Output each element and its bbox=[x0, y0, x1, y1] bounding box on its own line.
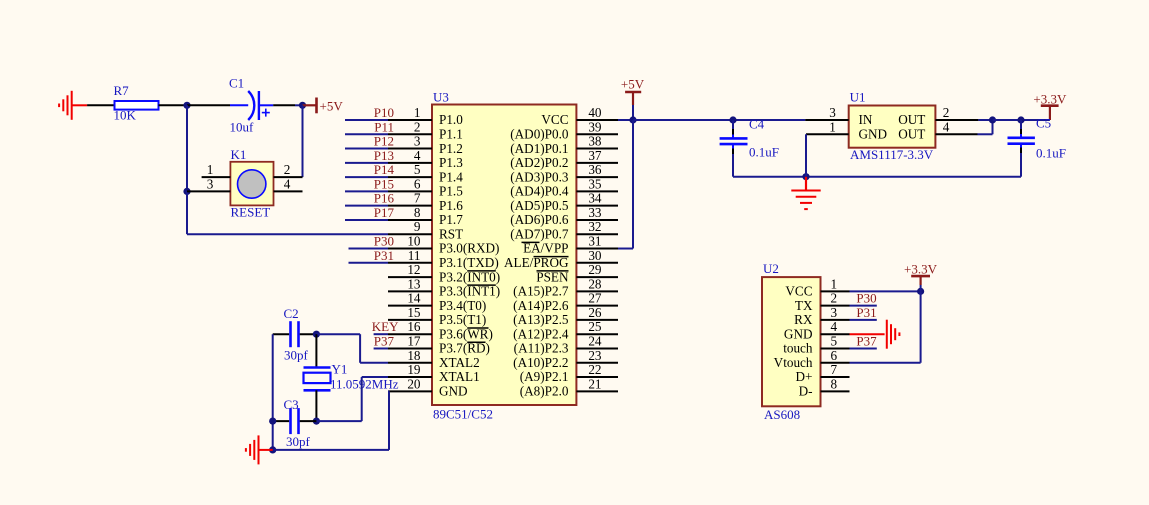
svg-text:P14: P14 bbox=[374, 162, 395, 177]
power flag +5V (VCC) bbox=[621, 77, 645, 120]
svg-text:(AD1)P0.1: (AD1)P0.1 bbox=[510, 141, 568, 156]
U3 pin 12 (P3.2(INT0)) bbox=[388, 262, 500, 284]
capacitor C2 30pf bbox=[273, 306, 317, 363]
U3 pin 13 (P3.3(INT1)) bbox=[388, 276, 500, 298]
svg-text:+3.3V: +3.3V bbox=[1033, 92, 1067, 107]
svg-text:+5V: +5V bbox=[621, 77, 645, 92]
svg-text:P30: P30 bbox=[856, 291, 876, 306]
svg-text:+3.3V: +3.3V bbox=[904, 261, 938, 276]
K1 pin 3 bbox=[187, 190, 230, 192]
svg-text:8: 8 bbox=[414, 205, 421, 220]
svg-text:GND: GND bbox=[859, 126, 888, 141]
wire R7 to node RSTNET bbox=[159, 104, 188, 106]
junction at C1/+5V node bbox=[299, 102, 306, 109]
junction at R7/C1 node bbox=[183, 102, 190, 109]
svg-text:8: 8 bbox=[831, 376, 838, 391]
U1 pin 1 (GND) bbox=[806, 133, 849, 135]
svg-text:+5V: +5V bbox=[320, 98, 344, 113]
wire ground to R7 bbox=[87, 104, 114, 106]
U3 pin 33 ((AD6)P0.6) bbox=[510, 205, 618, 227]
U2 pin 4 (GND) bbox=[784, 319, 850, 341]
wire net P13 bbox=[345, 162, 388, 164]
svg-text:(AD5)P0.5: (AD5)P0.5 bbox=[510, 198, 569, 213]
svg-text:0.1uF: 0.1uF bbox=[749, 145, 779, 160]
U3 pin 6 (P1.5) bbox=[388, 176, 463, 198]
svg-text:29: 29 bbox=[588, 262, 602, 277]
svg-text:21: 21 bbox=[588, 376, 601, 391]
U1 pin 2 (OUT) bbox=[935, 119, 978, 121]
svg-text:11.0592MHz: 11.0592MHz bbox=[330, 377, 399, 392]
junction node B (XTAL1 net) bbox=[313, 418, 320, 425]
svg-text:P37: P37 bbox=[856, 333, 877, 348]
wire net P30 (U2 TX) bbox=[850, 305, 877, 307]
svg-text:1: 1 bbox=[207, 162, 214, 177]
svg-text:11: 11 bbox=[408, 248, 421, 263]
wire node down to K1 pin3 and RST bbox=[186, 105, 188, 191]
svg-text:25: 25 bbox=[588, 319, 602, 334]
svg-text:4: 4 bbox=[284, 176, 291, 191]
svg-text:(A10)P2.2: (A10)P2.2 bbox=[513, 355, 568, 370]
svg-text:23: 23 bbox=[588, 348, 602, 363]
U3 pin 7 (P1.6) bbox=[388, 191, 463, 213]
wire net P37 (U2 touch) bbox=[850, 347, 877, 349]
junction at C4 bbox=[729, 116, 736, 123]
svg-text:P37: P37 bbox=[374, 333, 395, 348]
svg-text:U3: U3 bbox=[433, 90, 449, 105]
regulator U1 AMS1117-3.3V bbox=[849, 90, 936, 162]
svg-text:30pf: 30pf bbox=[284, 348, 309, 363]
svg-text:touch: touch bbox=[783, 341, 813, 356]
junction OUT node bbox=[989, 116, 996, 123]
svg-text:P17: P17 bbox=[374, 205, 395, 220]
U3 pin 1 (P1.0) bbox=[388, 105, 463, 127]
U3 pin 19 (XTAL1) bbox=[388, 362, 480, 384]
svg-text:18: 18 bbox=[407, 348, 421, 363]
U3 pin 37 ((AD2)P0.2) bbox=[510, 148, 618, 170]
wire net P10 bbox=[345, 119, 388, 121]
U3 pin 15 (P3.5(T1)) bbox=[388, 305, 486, 327]
svg-text:3: 3 bbox=[207, 176, 214, 191]
svg-text:19: 19 bbox=[407, 362, 421, 377]
svg-text:36: 36 bbox=[588, 162, 602, 177]
U3 pin 10 (P3.0(RXD)) bbox=[388, 234, 499, 256]
svg-text:35: 35 bbox=[588, 176, 602, 191]
svg-text:P1.6: P1.6 bbox=[439, 198, 463, 213]
wire U1 GND down to ground node bbox=[805, 134, 807, 176]
wire net P14 bbox=[345, 176, 388, 178]
U3 pin 34 ((AD5)P0.5) bbox=[510, 191, 618, 213]
svg-text:(AD4)P0.4: (AD4)P0.4 bbox=[510, 184, 569, 199]
wire net P37 bbox=[374, 347, 388, 349]
junction C3 left bbox=[269, 418, 276, 425]
capacitor C5 0.1uF bbox=[1008, 116, 1066, 177]
U3 pin 22 ((A9)P2.1) bbox=[520, 362, 618, 384]
U3 pin 31 (EA/VPP) bbox=[523, 234, 618, 256]
wire net P16 bbox=[345, 205, 388, 207]
wire net P31 bbox=[349, 262, 389, 264]
U3 pin 32 ((AD7)P0.7) bbox=[510, 219, 618, 241]
svg-text:P3.5(T1): P3.5(T1) bbox=[439, 312, 486, 327]
U3 pin 24 ((A11)P2.3) bbox=[514, 333, 618, 355]
wire net P11 bbox=[345, 133, 388, 135]
svg-text:D-: D- bbox=[799, 384, 813, 399]
wire GND pin20 down to ground row bbox=[388, 391, 390, 450]
svg-text:30pf: 30pf bbox=[286, 434, 311, 449]
U3 pin 8 (P1.7) bbox=[388, 205, 463, 227]
junction ground row left bbox=[269, 446, 276, 453]
svg-text:KEY: KEY bbox=[372, 319, 399, 334]
svg-text:3: 3 bbox=[414, 134, 421, 149]
svg-text:P3.0(RXD): P3.0(RXD) bbox=[439, 241, 499, 256]
svg-text:(AD7)P0.7: (AD7)P0.7 bbox=[510, 226, 569, 241]
MCU U3 89C51/C52 bbox=[432, 90, 576, 422]
U3 pin 29 (PSEN) bbox=[536, 262, 618, 284]
svg-text:(A14)P2.6: (A14)P2.6 bbox=[513, 298, 569, 313]
svg-text:89C51/C52: 89C51/C52 bbox=[433, 407, 493, 422]
U3 pin 35 ((AD4)P0.4) bbox=[510, 176, 618, 198]
svg-text:TX: TX bbox=[795, 298, 813, 313]
wire OUT node to C5/+3.3V bbox=[993, 119, 1050, 121]
crystal Y1 11.0592MHz bbox=[304, 334, 399, 421]
svg-text:10K: 10K bbox=[114, 108, 137, 123]
U2 pin 8 (D-) bbox=[799, 376, 850, 398]
U1 pin 3 (IN) bbox=[805, 119, 849, 121]
U2 pin 5 (touch) bbox=[783, 333, 849, 355]
svg-text:27: 27 bbox=[588, 291, 602, 306]
U3 active-low overlines (left) bbox=[467, 271, 496, 342]
power flag +3.3V (U2) bbox=[904, 261, 938, 291]
capacitor C1 10uf (polarized) bbox=[229, 76, 273, 135]
junction U2 VCC node bbox=[917, 288, 924, 295]
fingerprint module U2 AS608 bbox=[762, 261, 821, 422]
svg-text:Vtouch: Vtouch bbox=[774, 355, 813, 370]
wire node B to XTAL1 bbox=[316, 420, 361, 422]
wire +5V node down to EA/VPP pin31 bbox=[632, 120, 634, 249]
svg-text:Y1: Y1 bbox=[332, 362, 348, 377]
svg-text:7: 7 bbox=[414, 191, 421, 206]
svg-text:AS608: AS608 bbox=[764, 407, 800, 422]
U3 pin 20 (GND) bbox=[388, 376, 468, 398]
resistor R7 10K bbox=[114, 83, 159, 123]
svg-text:C3: C3 bbox=[284, 397, 299, 412]
svg-text:31: 31 bbox=[588, 234, 601, 249]
svg-text:P13: P13 bbox=[374, 148, 394, 163]
svg-text:RX: RX bbox=[794, 312, 813, 327]
svg-text:(AD0)P0.0: (AD0)P0.0 bbox=[510, 126, 569, 141]
svg-text:(A12)P2.4: (A12)P2.4 bbox=[513, 326, 569, 341]
svg-text:R7: R7 bbox=[114, 83, 130, 98]
wire VCC node to C4 and U1 bbox=[633, 119, 805, 121]
U3 pin 39 ((AD0)P0.0) bbox=[510, 119, 618, 141]
svg-text:5: 5 bbox=[414, 162, 421, 177]
wire OUT pins join bbox=[978, 119, 992, 121]
U2 pin 7 (D+) bbox=[796, 362, 850, 384]
svg-text:4: 4 bbox=[831, 319, 838, 334]
svg-text:6: 6 bbox=[414, 176, 421, 191]
svg-text:4: 4 bbox=[414, 148, 421, 163]
svg-text:GND: GND bbox=[439, 384, 468, 399]
K1 pin 4 bbox=[274, 190, 303, 192]
wire +5V node down to K1 pin2 bbox=[302, 105, 304, 177]
U3 pin 23 ((A10)P2.2) bbox=[513, 348, 618, 370]
svg-text:K1: K1 bbox=[231, 147, 247, 162]
wire C4 bottom to ground/C5 bbox=[733, 176, 1021, 178]
svg-text:0.1uF: 0.1uF bbox=[1036, 145, 1066, 160]
svg-text:OUT: OUT bbox=[898, 126, 925, 141]
svg-text:39: 39 bbox=[588, 119, 602, 134]
svg-text:14: 14 bbox=[407, 291, 421, 306]
junction at C5 bbox=[1017, 116, 1024, 123]
svg-text:12: 12 bbox=[407, 262, 420, 277]
svg-text:6: 6 bbox=[831, 348, 838, 363]
svg-text:2: 2 bbox=[831, 291, 838, 306]
svg-text:GND: GND bbox=[784, 326, 813, 341]
U3 pin 9 (RST) bbox=[388, 219, 463, 241]
svg-text:C2: C2 bbox=[284, 306, 299, 321]
U2 pin 6 (Vtouch) bbox=[774, 348, 850, 370]
ground GND3 (crystal) bbox=[246, 435, 273, 464]
U3 pin 16 (P3.6(WR)) bbox=[388, 319, 493, 341]
svg-text:22: 22 bbox=[588, 362, 601, 377]
svg-text:P11: P11 bbox=[374, 119, 394, 134]
svg-text:(AD2)P0.2: (AD2)P0.2 bbox=[510, 155, 568, 170]
svg-text:5: 5 bbox=[831, 333, 838, 348]
svg-text:(A13)P2.5: (A13)P2.5 bbox=[513, 312, 569, 327]
U3 pin 27 ((A14)P2.6) bbox=[513, 291, 618, 313]
svg-text:1: 1 bbox=[414, 105, 421, 120]
svg-text:10uf: 10uf bbox=[230, 120, 255, 135]
wire U2 VCC to +3.3V bbox=[850, 290, 921, 292]
U2 pin 3 (RX) bbox=[794, 305, 849, 327]
svg-text:28: 28 bbox=[588, 276, 602, 291]
svg-text:RESET: RESET bbox=[231, 205, 271, 220]
svg-text:P10: P10 bbox=[374, 105, 394, 120]
svg-text:16: 16 bbox=[407, 319, 421, 334]
junction node A (XTAL2 net) bbox=[313, 331, 320, 338]
wire U2 Vtouch to +3.3V node bbox=[850, 362, 921, 364]
wire net P15 bbox=[345, 190, 388, 192]
U3 pin 4 (P1.3) bbox=[388, 148, 463, 170]
svg-text:(A8)P2.0: (A8)P2.0 bbox=[520, 384, 569, 399]
ground GND2 (below C4/U1) bbox=[791, 177, 820, 209]
svg-text:2: 2 bbox=[414, 119, 421, 134]
U3 pin 14 (P3.4(T0)) bbox=[388, 291, 486, 313]
svg-text:2: 2 bbox=[284, 162, 291, 177]
wire net P31 (U2 RX) bbox=[850, 319, 877, 321]
svg-text:P1.2: P1.2 bbox=[439, 141, 463, 156]
wire net KEY bbox=[374, 333, 388, 335]
U2 pin 1 (VCC) bbox=[785, 276, 849, 298]
wire C2 left leg down to ground row bbox=[272, 334, 274, 450]
svg-text:AMS1117-3.3V: AMS1117-3.3V bbox=[850, 147, 934, 162]
svg-text:3: 3 bbox=[831, 305, 838, 320]
svg-text:VCC: VCC bbox=[541, 112, 568, 127]
U3 pin 30 (ALE/PROG) bbox=[504, 248, 618, 270]
svg-text:4: 4 bbox=[943, 119, 950, 134]
U2 pin 2 (TX) bbox=[795, 291, 850, 313]
svg-text:26: 26 bbox=[588, 305, 602, 320]
svg-text:(AD6)P0.6: (AD6)P0.6 bbox=[510, 212, 569, 227]
svg-text:13: 13 bbox=[407, 276, 421, 291]
power flag +5V (reset circuit) bbox=[303, 98, 344, 114]
svg-text:P12: P12 bbox=[374, 134, 394, 149]
svg-text:(A9)P2.1: (A9)P2.1 bbox=[520, 369, 569, 384]
svg-text:24: 24 bbox=[588, 333, 602, 348]
capacitor C4 0.1uF bbox=[720, 116, 779, 176]
U3 pin 2 (P1.1) bbox=[388, 119, 463, 141]
wire net P12 bbox=[345, 148, 388, 150]
svg-text:C4: C4 bbox=[749, 116, 765, 131]
svg-text:P3.4(T0): P3.4(T0) bbox=[439, 298, 486, 313]
svg-text:P30: P30 bbox=[374, 234, 394, 249]
U3 pin 17 (P3.7(RD)) bbox=[388, 333, 490, 355]
svg-text:15: 15 bbox=[407, 305, 421, 320]
svg-text:P15: P15 bbox=[374, 176, 394, 191]
U3 pin 36 ((AD3)P0.3) bbox=[510, 162, 618, 184]
K1 pin 1 bbox=[202, 176, 231, 178]
K1 pin 2 bbox=[274, 176, 303, 178]
svg-text:(A15)P2.7: (A15)P2.7 bbox=[513, 284, 569, 299]
wire node to C1 bbox=[187, 104, 230, 106]
svg-text:10: 10 bbox=[407, 234, 421, 249]
svg-text:D+: D+ bbox=[796, 369, 813, 384]
svg-text:40: 40 bbox=[588, 105, 602, 120]
U3 pin 21 ((A8)P2.0) bbox=[520, 376, 618, 398]
svg-text:C5: C5 bbox=[1036, 116, 1051, 131]
svg-text:P1.1: P1.1 bbox=[439, 126, 463, 141]
svg-text:XTAL2: XTAL2 bbox=[439, 355, 480, 370]
U3 pin 25 ((A12)P2.4) bbox=[513, 319, 618, 341]
U3 pin 28 ((A15)P2.7) bbox=[513, 276, 618, 298]
svg-text:P1.5: P1.5 bbox=[439, 184, 463, 199]
svg-text:33: 33 bbox=[588, 205, 602, 220]
U3 pin 5 (P1.4) bbox=[388, 162, 463, 184]
wire net P30 bbox=[349, 248, 389, 250]
wire C1 to +5V node bbox=[273, 104, 295, 106]
junction at ground node bbox=[802, 173, 809, 180]
wire node A to XTAL2 bbox=[316, 333, 360, 335]
svg-text:P1.7: P1.7 bbox=[439, 212, 463, 227]
junction at K1 pin3 bbox=[183, 188, 190, 195]
pushbutton K1 RESET bbox=[230, 147, 273, 219]
U3 pin 26 ((A13)P2.5) bbox=[513, 305, 618, 327]
svg-text:34: 34 bbox=[588, 191, 602, 206]
power flag +3.3V (U1 output) bbox=[1033, 92, 1067, 121]
svg-text:38: 38 bbox=[588, 134, 602, 149]
ground GND1 (left of R7) bbox=[59, 91, 87, 120]
svg-text:(AD3)P0.3: (AD3)P0.3 bbox=[510, 169, 569, 184]
U3 pin 38 ((AD1)P0.1) bbox=[510, 134, 618, 156]
svg-text:P1.4: P1.4 bbox=[439, 169, 463, 184]
svg-text:XTAL1: XTAL1 bbox=[439, 369, 480, 384]
svg-text:20: 20 bbox=[407, 376, 421, 391]
U1 pin 4 (OUT) bbox=[935, 133, 977, 135]
U3 active-low overlines (right) bbox=[522, 242, 569, 271]
svg-text:U1: U1 bbox=[850, 90, 866, 105]
svg-text:P1.3: P1.3 bbox=[439, 155, 463, 170]
U3 pin 40 (VCC) bbox=[541, 105, 618, 127]
wire VCC pin40 to +5V junction bbox=[618, 119, 633, 121]
svg-text:30: 30 bbox=[588, 248, 602, 263]
svg-text:3: 3 bbox=[829, 105, 836, 120]
svg-text:P16: P16 bbox=[374, 191, 395, 206]
svg-text:OUT: OUT bbox=[898, 112, 925, 127]
svg-text:17: 17 bbox=[407, 333, 421, 348]
svg-text:32: 32 bbox=[588, 219, 601, 234]
svg-text:P31: P31 bbox=[374, 248, 394, 263]
svg-text:7: 7 bbox=[831, 362, 838, 377]
svg-text:C1: C1 bbox=[229, 76, 244, 91]
ground GND4 (U2) bbox=[850, 320, 900, 349]
svg-text:37: 37 bbox=[588, 148, 602, 163]
svg-text:VCC: VCC bbox=[785, 284, 812, 299]
svg-text:1: 1 bbox=[831, 276, 838, 291]
U3 pin 3 (P1.2) bbox=[388, 134, 463, 156]
wire net P17 bbox=[345, 219, 388, 221]
svg-text:2: 2 bbox=[943, 105, 950, 120]
U3 pin 11 (P3.1(TXD)) bbox=[388, 248, 499, 270]
svg-text:P31: P31 bbox=[856, 305, 876, 320]
capacitor C3 30pf bbox=[273, 397, 317, 449]
U3 pin 18 (XTAL2) bbox=[388, 348, 480, 370]
svg-text:IN: IN bbox=[859, 112, 873, 127]
svg-text:(A11)P2.3: (A11)P2.3 bbox=[514, 341, 569, 356]
junction VCC node bbox=[629, 116, 636, 123]
svg-text:RST: RST bbox=[439, 226, 463, 241]
svg-text:P3.1(TXD): P3.1(TXD) bbox=[439, 255, 499, 270]
svg-text:9: 9 bbox=[414, 219, 421, 234]
svg-text:P1.0: P1.0 bbox=[439, 112, 463, 127]
svg-text:1: 1 bbox=[829, 119, 836, 134]
svg-text:U2: U2 bbox=[763, 261, 779, 276]
